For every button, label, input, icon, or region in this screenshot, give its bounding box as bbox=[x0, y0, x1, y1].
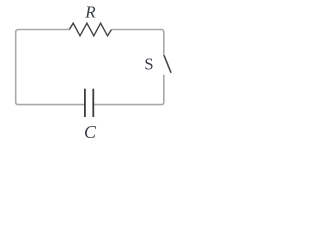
svg-text:S: S bbox=[144, 55, 153, 74]
capacitor C: right plate bbox=[92, 89, 94, 117]
capacitor C: left plate bbox=[84, 89, 86, 117]
wire: top-left + left + bottom-left segment (to capacitor left plate) bbox=[16, 30, 84, 105]
wire: lower right wire + bottom-right segment (switch bottom contact to capacitor right plate) bbox=[94, 75, 164, 105]
resistor R bbox=[69, 23, 111, 36]
svg-text:R: R bbox=[84, 2, 96, 21]
svg-text:C: C bbox=[84, 122, 97, 142]
switch S (open blade) bbox=[164, 56, 171, 72]
wire: top-right segment + upper right wire (to switch top contact) bbox=[112, 30, 164, 56]
